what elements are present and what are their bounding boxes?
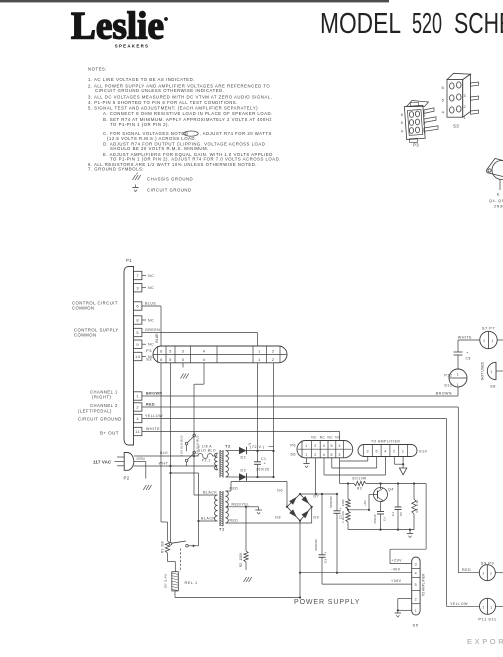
svg-text:2: 2 <box>272 348 275 353</box>
wire white column to regulator rail <box>339 461 341 484</box>
transistor Q4 <box>374 488 388 502</box>
wire bridge top rail <box>300 493 337 495</box>
svg-text:WHT: WHT <box>159 461 169 465</box>
title MODEL 520 SCHEMATIC <box>320 8 503 40</box>
P3 pin6 column wire <box>160 363 162 522</box>
relay mechanical link <box>180 549 182 572</box>
wire S6 pin5 to S10 pin5 <box>331 458 333 468</box>
ground <box>399 468 406 475</box>
svg-text:Q4: Q4 <box>388 488 394 492</box>
resistor R11 <box>347 484 349 500</box>
svg-text:100K: 100K <box>239 552 243 561</box>
svg-text:COMMON: COMMON <box>74 333 97 338</box>
diode D3 <box>229 476 239 478</box>
svg-text:GREEN: GREEN <box>145 328 160 332</box>
svg-text:1: 1 <box>136 394 139 399</box>
wire RED <box>142 406 458 408</box>
svg-text:CHASSIS GROUND: CHASSIS GROUND <box>147 177 193 182</box>
svg-text:BROWN: BROWN <box>436 392 452 396</box>
svg-text:R3: R3 <box>357 487 362 491</box>
svg-text:4: 4 <box>401 129 404 133</box>
AC plug P2 <box>124 453 134 471</box>
switch contacts <box>169 543 172 546</box>
svg-text:D2: D2 <box>241 456 247 460</box>
fuse F1 <box>198 454 212 459</box>
svg-text:(72 V.): (72 V.) <box>250 445 265 449</box>
svg-text:BLUE: BLUE <box>155 333 159 343</box>
svg-text:2: 2 <box>463 105 466 109</box>
wire -40V <box>300 572 412 574</box>
svg-text:+: + <box>340 507 343 511</box>
svg-text:520: 520 <box>412 8 442 40</box>
wire from S7 to edge <box>497 339 503 341</box>
resistor R2 <box>245 507 247 551</box>
svg-text:1: 1 <box>482 572 485 576</box>
wire R1 to relay coil <box>167 553 169 562</box>
ground <box>303 463 309 465</box>
svg-text:BLACK: BLACK <box>203 490 217 494</box>
node D2 junction <box>256 450 258 452</box>
wire GREEN <box>142 332 258 334</box>
svg-text:3000/50: 3000/50 <box>314 539 318 551</box>
svg-text:5: 5 <box>375 450 378 454</box>
svg-text:10: 10 <box>135 354 141 359</box>
svg-text:1.2K/2W: 1.2K/2W <box>341 511 345 523</box>
svg-text:1: 1 <box>305 453 308 457</box>
svg-text:2N3055: 2N3055 <box>494 205 503 209</box>
wire S6 pin1 to ground <box>306 458 308 464</box>
svg-text:SCHEM: SCHEM <box>454 8 503 40</box>
svg-text:1: 1 <box>457 373 460 377</box>
svg-text:D9: D9 <box>314 516 320 520</box>
svg-text:MODEL: MODEL <box>320 8 401 40</box>
svg-text:3000/50: 3000/50 <box>329 496 333 508</box>
ground <box>143 485 146 490</box>
svg-text:3: 3 <box>338 444 341 448</box>
svg-text:1: 1 <box>491 339 494 343</box>
connector S10 capsule <box>358 445 427 457</box>
svg-text:(12.5 VOLTS R.M.S.) ACROSS LO: (12.5 VOLTS R.M.S.) ACROSS LOAD. <box>107 136 197 141</box>
svg-text:250/35: 250/35 <box>256 468 269 472</box>
svg-text:BLUE: BLUE <box>145 302 156 306</box>
resistor R8 <box>413 484 415 500</box>
connector S5 <box>412 557 420 628</box>
svg-text:NC: NC <box>148 274 154 278</box>
regulator mid rail <box>348 509 369 511</box>
svg-text:NC: NC <box>311 436 317 440</box>
svg-text:5: 5 <box>169 357 172 362</box>
svg-text:3: 3 <box>338 453 341 457</box>
svg-text:4: 4 <box>323 453 326 457</box>
svg-text:BROWN: BROWN <box>146 392 162 396</box>
svg-text:SPEAKERS: SPEAKERS <box>115 44 150 49</box>
wire GRN to chassis ground <box>134 460 146 462</box>
connector P11/S11 <box>480 598 496 614</box>
svg-text:TO P1-PIN 1 (OR PIN 2). ADJU: TO P1-PIN 1 (OR PIN 2). ADJUST R74 FOR 7… <box>110 156 281 161</box>
svg-text:YELLOW: YELLOW <box>450 602 468 606</box>
svg-text:TO AMPLIFIER: TO AMPLIFIER <box>422 573 426 597</box>
svg-text:+: + <box>466 350 469 355</box>
wire relay coil to bottom rail <box>174 591 176 598</box>
resistor R1 <box>161 521 168 523</box>
svg-text:T2: T2 <box>225 444 231 449</box>
svg-text:2: 2 <box>423 122 426 126</box>
svg-text:S3: S3 <box>453 124 459 129</box>
svg-text:4: 4 <box>323 444 326 448</box>
wire S10 pins 2,1 to ground <box>393 457 395 465</box>
svg-text:SLO BLO: SLO BLO <box>198 449 216 453</box>
svg-text:5: 5 <box>415 583 418 587</box>
svg-text:4: 4 <box>384 450 387 454</box>
svg-text:NC: NC <box>335 436 341 440</box>
svg-text:5: 5 <box>331 444 334 448</box>
wire bottom rail <box>175 597 300 599</box>
wire BLK <box>134 455 194 457</box>
svg-text:F2.1: F2.1 <box>202 459 211 463</box>
svg-text:3: 3 <box>182 357 185 362</box>
junction BLK-T1 column <box>193 455 195 457</box>
svg-text:1. AC LINE VOLTAGE TO BE AS I: 1. AC LINE VOLTAGE TO BE AS INDICATED. <box>88 77 195 82</box>
ground <box>409 530 411 534</box>
svg-text:COMMON: COMMON <box>72 306 95 311</box>
svg-text:T1: T1 <box>219 527 225 532</box>
svg-text:1: 1 <box>483 339 486 343</box>
svg-text:1: 1 <box>490 572 493 576</box>
svg-text:NC: NC <box>148 319 154 323</box>
wire switch to black column <box>198 473 200 546</box>
svg-text:+8V: +8V <box>363 500 367 506</box>
svg-text:YELLOW: YELLOW <box>145 414 163 418</box>
P3 pin5 column wire <box>170 363 172 543</box>
svg-text:3: 3 <box>367 450 370 454</box>
svg-text:6: 6 <box>160 357 163 362</box>
svg-text:4. P1-PIN 5 SHORTED TO PIN 6 F: 4. P1-PIN 5 SHORTED TO PIN 6 FOR ALL TES… <box>88 100 238 105</box>
P1 function labels <box>72 301 122 436</box>
svg-text:+: + <box>264 461 267 466</box>
svg-text:C3: C3 <box>324 559 328 563</box>
svg-text:5: 5 <box>401 121 404 125</box>
svg-text:80/10W: 80/10W <box>353 477 367 481</box>
svg-text:REL.1: REL.1 <box>185 581 198 585</box>
svg-text:P12: P12 <box>444 374 452 378</box>
svg-text:TO AMPLIFIER: TO AMPLIFIER <box>371 440 400 444</box>
connector P3/S3 capsule <box>146 346 287 363</box>
svg-text:C4: C4 <box>383 517 387 521</box>
svg-text:6: 6 <box>401 113 404 117</box>
wire S6 pin3 to S10 pin3 <box>339 458 341 461</box>
wire BLACK T1 primary top <box>194 494 216 496</box>
wire BLACK T1 primary bottom <box>199 520 217 522</box>
capacitor C5 <box>397 484 399 508</box>
capacitor C8 <box>454 351 463 353</box>
svg-text:P1: P1 <box>126 258 132 263</box>
svg-text:CHANNEL 2: CHANNEL 2 <box>90 403 118 408</box>
svg-text:0.1: 0.1 <box>391 512 395 517</box>
svg-text:C5: C5 <box>399 512 403 516</box>
P3 pin1 column wire <box>257 363 259 451</box>
svg-text:1: 1 <box>482 605 485 609</box>
wire +29V <box>425 484 427 550</box>
svg-text:S8: S8 <box>490 385 496 389</box>
connector S8 NOT USED <box>487 362 496 379</box>
chassis ground legend symbol <box>133 175 136 180</box>
svg-text:NC: NC <box>327 436 333 440</box>
svg-text:P11 S11: P11 S11 <box>478 617 497 622</box>
connector S3 pictorial <box>442 73 479 128</box>
svg-text:117 VAC: 117 VAC <box>93 460 112 465</box>
svg-text:4: 4 <box>442 110 445 115</box>
resistor R12 <box>346 511 350 522</box>
relay REL.1 coil <box>164 572 198 591</box>
svg-text:8: 8 <box>136 318 139 323</box>
P3 pin4 column wire <box>203 363 205 384</box>
wire bridge bottom to rail <box>299 521 301 598</box>
svg-text:2: 2 <box>314 453 317 457</box>
node D3 junction <box>256 476 258 478</box>
connector P6/S6 capsule <box>290 436 352 458</box>
svg-text:SHOULD BE 20 VOLTS R.M.S. M: SHOULD BE 20 VOLTS R.M.S. MINIMUM. <box>110 146 209 151</box>
svg-text:P2: P2 <box>124 476 130 481</box>
regulator top rail <box>340 483 354 485</box>
svg-text:-40V: -40V <box>391 568 401 572</box>
svg-text:E: E <box>497 192 500 197</box>
svg-text:4: 4 <box>136 416 139 421</box>
svg-text:B+ OUT: B+ OUT <box>100 431 119 436</box>
svg-text:C8: C8 <box>466 357 471 361</box>
svg-text:5: 5 <box>136 330 139 335</box>
svg-text:R8: R8 <box>415 508 419 512</box>
svg-text:(RIGHT): (RIGHT) <box>92 395 111 400</box>
ground <box>397 610 399 613</box>
transformer T2 <box>215 444 231 478</box>
svg-text:1: 1 <box>423 130 426 134</box>
svg-text:9: 9 <box>136 342 139 347</box>
connector S9/P9 <box>479 565 495 581</box>
transistor package pictorial Q4 <box>486 159 503 209</box>
svg-text:S5: S5 <box>413 623 419 628</box>
wire +39V <box>322 583 412 585</box>
connector P3 pictorial <box>401 101 438 148</box>
svg-text:D8: D8 <box>275 516 281 520</box>
svg-text:NC: NC <box>320 436 326 440</box>
wire WHITE <box>142 431 340 433</box>
svg-text:CIRCUIT GROUND: CIRCUIT GROUND <box>78 417 122 422</box>
svg-text:2: 2 <box>272 357 275 362</box>
connector S7/P7 <box>480 331 497 348</box>
svg-text:WHITE: WHITE <box>458 336 472 340</box>
svg-text:6: 6 <box>136 304 139 309</box>
svg-text:S3: S3 <box>146 357 152 362</box>
svg-text:NC: NC <box>148 343 154 347</box>
svg-text:3: 3 <box>423 114 426 118</box>
capacitor C2 <box>336 494 338 511</box>
svg-text:2: 2 <box>415 597 418 601</box>
svg-text:P6: P6 <box>290 444 296 448</box>
wire WHT <box>134 465 217 467</box>
svg-text:1: 1 <box>258 348 261 353</box>
connector P12/S12 <box>449 369 467 387</box>
svg-text:3.3K: 3.3K <box>415 500 419 506</box>
svg-text:1: 1 <box>490 370 493 374</box>
svg-text:7: 7 <box>136 273 139 278</box>
junction WHT-switch column <box>169 465 171 467</box>
ground <box>244 577 247 582</box>
svg-text:4: 4 <box>415 571 418 575</box>
svg-text:D7: D7 <box>314 495 320 499</box>
svg-text:NC: NC <box>148 286 154 290</box>
svg-text:5: 5 <box>169 348 172 353</box>
P3 pin3 ground stub <box>182 363 184 368</box>
svg-text:6: 6 <box>160 348 163 353</box>
Leslie logo <box>71 5 168 49</box>
svg-text:3: 3 <box>136 285 139 290</box>
connector P1 body <box>124 267 134 446</box>
svg-text:BLACK: BLACK <box>201 516 215 520</box>
svg-text:POWER SUPPLY: POWER SUPPLY <box>294 599 360 606</box>
P3 pin2 column wire <box>273 363 275 477</box>
svg-text:3: 3 <box>463 94 466 98</box>
svg-text:WHITE: WHITE <box>146 427 160 431</box>
svg-text:R1: R1 <box>161 549 165 553</box>
svg-text:RED: RED <box>230 519 239 523</box>
resistor R3 <box>354 481 366 485</box>
svg-text:+: + <box>325 551 328 555</box>
wire BROWN <box>142 395 458 397</box>
svg-text:1: 1 <box>305 444 308 448</box>
svg-text:2: 2 <box>314 444 317 448</box>
wire BLUE <box>142 305 161 307</box>
svg-text:P3: P3 <box>146 348 152 353</box>
notes text block <box>88 67 281 172</box>
bridge rectifier D6-D9 <box>275 489 319 522</box>
svg-text:11: 11 <box>135 429 140 434</box>
connector P1 pin squares <box>134 271 142 435</box>
svg-text:1: 1 <box>402 450 405 454</box>
svg-text:6: 6 <box>442 85 445 90</box>
svg-text:S7 P7: S7 P7 <box>482 326 496 331</box>
svg-text:R2: R2 <box>239 563 243 567</box>
svg-text:1: 1 <box>415 609 418 613</box>
scan edge bar <box>0 0 389 2</box>
svg-text:P3: P3 <box>413 143 419 148</box>
svg-text:, ADJUST R74 FOR 20 WATTS: , ADJUST R74 FOR 20 WATTS <box>200 131 272 136</box>
svg-text:Q4, Q5: Q4, Q5 <box>489 199 503 203</box>
svg-text:1: 1 <box>490 605 493 609</box>
svg-text:3: 3 <box>182 348 185 353</box>
svg-text:2: 2 <box>393 450 396 454</box>
svg-text:3: 3 <box>415 562 418 566</box>
svg-text:+29V: +29V <box>392 559 403 563</box>
svg-text:187 (1.4V): 187 (1.4V) <box>164 573 168 588</box>
wire S6 pin2 to bridge rail <box>315 458 317 494</box>
capacitor C4 <box>380 502 382 512</box>
wire YELLOW <box>142 418 447 420</box>
transformer T1 <box>215 491 229 532</box>
svg-text:TO P1-PIN 1 (OR PIN 2).: TO P1-PIN 1 (OR PIN 2). <box>110 122 170 127</box>
svg-text:S6: S6 <box>290 453 296 457</box>
svg-text:5. SIGNAL TEST AND ADJUSTMENT;: 5. SIGNAL TEST AND ADJUSTMENT; (EACH AMP… <box>88 106 258 111</box>
diode D2 <box>229 450 239 452</box>
svg-text:2.5A SLO-BLO: 2.5A SLO-BLO <box>180 435 184 457</box>
svg-text:A. CONNECT 8 OHM RESISTIVE LO: A. CONNECT 8 OHM RESISTIVE LOAD IN PLACE… <box>103 111 273 116</box>
regulator bottom rail <box>348 529 414 531</box>
svg-text:3300: 3300 <box>341 499 345 506</box>
svg-text:7. GROUND SYMBOLS:: 7. GROUND SYMBOLS: <box>88 167 144 172</box>
svg-text:BLK: BLK <box>160 451 168 455</box>
svg-text:250/35: 250/35 <box>373 514 377 524</box>
svg-text:D6: D6 <box>277 489 283 493</box>
ground <box>255 509 261 511</box>
circuit ground legend symbol <box>135 185 137 188</box>
capacitor C3 <box>321 494 323 555</box>
svg-text:NOTES:: NOTES: <box>88 67 107 72</box>
capacitor C1 <box>257 451 259 462</box>
wire S5 pin2 to ground <box>398 598 412 600</box>
svg-text:390: 390 <box>161 541 165 547</box>
svg-text:RED: RED <box>462 568 471 572</box>
svg-text:CIRCUIT GROUND UNLESS OTHERWIS: CIRCUIT GROUND UNLESS OTHERWISE INDICATE… <box>95 88 224 93</box>
svg-text:D3: D3 <box>241 469 247 473</box>
svg-text:Leslie: Leslie <box>71 5 164 48</box>
svg-text:S10: S10 <box>419 450 427 454</box>
svg-text:1: 1 <box>258 357 261 362</box>
svg-text:4: 4 <box>203 357 206 362</box>
svg-text:GRN: GRN <box>137 457 146 461</box>
svg-text:2: 2 <box>136 405 139 410</box>
svg-text:5: 5 <box>331 453 334 457</box>
circuit breakers F2 <box>180 432 200 467</box>
svg-text:NOT USED: NOT USED <box>481 361 485 380</box>
svg-text:(LEFT/PEDAL): (LEFT/PEDAL) <box>78 409 112 414</box>
svg-text:1: 1 <box>463 116 466 120</box>
svg-text:RED/YEL: RED/YEL <box>232 502 250 506</box>
svg-text:3. ALL DC VOLTAGES MEASURED WI: 3. ALL DC VOLTAGES MEASURED WITH DC VTVM… <box>88 95 272 100</box>
svg-text:4: 4 <box>203 348 206 353</box>
svg-text:5: 5 <box>442 97 445 102</box>
wire S6 pin4 to S10 pin4 <box>323 458 325 475</box>
svg-text:1: 1 <box>457 383 460 387</box>
svg-text:RED: RED <box>146 403 155 407</box>
wire WHITE to S7 <box>458 339 480 341</box>
svg-text:+39V: +39V <box>391 579 402 583</box>
svg-text:EXPORT: EXPORT <box>467 637 503 646</box>
P1 NC pins <box>142 274 154 359</box>
svg-text:CIRCUIT GROUND: CIRCUIT GROUND <box>147 188 192 193</box>
